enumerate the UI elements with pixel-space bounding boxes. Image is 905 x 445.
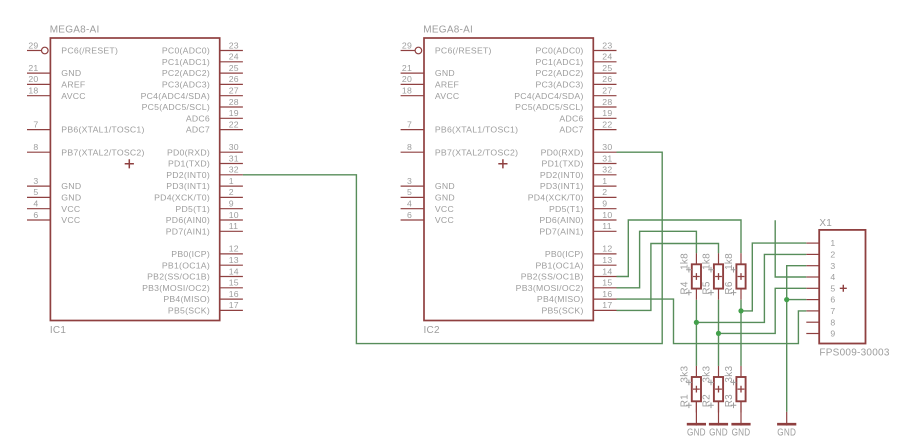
IC2 pin 16 PB4(MISO) (right) [537,289,617,304]
IC1 pin 21 GND (left) [27,63,81,78]
ground symbol GND on X1 pin3/6 net [777,412,796,439]
svg-text:PB0(ICP): PB0(ICP) [545,249,584,259]
R2 center cross [715,386,722,393]
svg-text:VCC: VCC [61,204,80,214]
svg-text:PD7(AIN1): PD7(AIN1) [539,226,583,236]
svg-text:27: 27 [602,86,612,96]
IC1 pin 26 PC3(ADC3) (right) [162,74,243,89]
IC1 pin 7 PB6(XTAL1/TOSC1) (left) [27,119,145,134]
wire net X1 pin 3 to GND rail [787,266,807,412]
svg-text:19: 19 [602,108,612,118]
svg-text:AREF: AREF [435,80,459,90]
svg-text:PC3(ADC3): PC3(ADC3) [162,80,210,90]
IC1 pin 4 VCC (left) [27,199,80,214]
svg-text:30: 30 [602,142,612,152]
svg-text:12: 12 [602,244,612,254]
IC2 pin 28 PC5(ADC5/SCL) (right) [515,97,616,112]
svg-text:PB7(XTAL2/TOSC2): PB7(XTAL2/TOSC2) [435,147,518,157]
svg-text:5: 5 [33,187,38,197]
junction dot R4/R1/X1.2 node [694,320,699,325]
IC1 pin 19 ADC6 (right) [186,108,243,123]
R1 center cross [693,386,700,393]
IC2 pin 30 PD0(RXD) (right) [541,142,617,157]
svg-text:23: 23 [602,40,612,50]
svg-text:14: 14 [602,266,612,276]
svg-text:PD3(INT1): PD3(INT1) [166,181,210,191]
ground symbol GND under R1 [687,401,706,438]
svg-text:30: 30 [229,142,239,152]
IC1 pin 1 PD3(INT1) (right) [166,176,243,191]
svg-text:ADC7: ADC7 [559,125,583,135]
IC2 pin 10 PD6(AIN0) (right) [539,210,616,225]
svg-text:AVCC: AVCC [435,91,460,101]
resistor R5 1k8 [701,253,723,300]
IC1 pin 23 PC0(ADC0) (right) [162,40,243,55]
IC1 pin 13 PB1(OC1A) (right) [162,255,243,270]
R3 bottom lead [740,401,742,412]
svg-text:PB5(SCK): PB5(SCK) [168,306,210,316]
IC1 pin 29 PC6(/RESET) (left) [27,40,118,55]
X1 pin 1 [806,238,835,248]
svg-text:20: 20 [28,74,38,84]
R2 top lead [718,366,720,377]
IC IC2 MEGA8-AI microcontroller [401,24,617,336]
IC1 pin 25 PC2(ADC2) (right) [162,63,243,78]
R2 origin crosses [708,380,714,386]
IC1 pin 18 AVCC (left) [27,86,86,101]
svg-text:VCC: VCC [435,204,454,214]
svg-text:23: 23 [229,40,239,50]
svg-text:PD6(AIN0): PD6(AIN0) [166,215,210,225]
IC2 pin 1 PD3(INT1) (right) [540,176,617,191]
svg-text:26: 26 [229,74,239,84]
svg-text:13: 13 [229,255,239,265]
svg-text:3: 3 [830,261,835,271]
svg-text:16: 16 [602,289,612,299]
IC1 pin 10 PD6(AIN0) (right) [166,210,243,225]
R6 top lead [740,253,742,264]
svg-text:15: 15 [602,278,612,288]
svg-text:10: 10 [602,210,612,220]
R5 top lead [718,253,720,264]
R6 bottom lead [740,289,742,300]
svg-text:GND: GND [732,427,751,438]
R4 bottom lead [695,289,697,300]
IC2 pin 14 PB2(SS/OC1B) (right) [521,266,617,281]
svg-text:31: 31 [602,153,612,163]
svg-text:PB4(MISO): PB4(MISO) [537,294,584,304]
IC2 pin 27 PC4(ADC4/SDA) (right) [514,86,616,101]
IC2 pin 9 PD5(T1) (right) [549,199,616,214]
IC1 pin 11 PD7(AIN1) (right) [166,221,243,236]
IC1 pin 16 PB4(MISO) (right) [163,289,243,304]
svg-text:4: 4 [33,199,38,209]
svg-text:PD5(T1): PD5(T1) [549,204,584,214]
svg-text:PD2(INT0): PD2(INT0) [540,170,584,180]
svg-text:8: 8 [830,317,835,327]
svg-text:5: 5 [407,187,412,197]
svg-text:PD5(T1): PD5(T1) [175,204,210,214]
R2 body [714,377,723,401]
R6 center cross [738,273,745,280]
IC2 pin 26 PC3(ADC3) (right) [535,74,616,89]
wire net R4 bottom junction to X1 pin 2 [696,254,806,322]
svg-text:PB5(SCK): PB5(SCK) [542,306,584,316]
ground symbol GND under R2 [709,401,728,438]
svg-text:PC0(ADC0): PC0(ADC0) [162,46,210,56]
IC2 pin 22 ADC7 (right) [559,119,616,134]
connector X1 FPS009-30003 [806,218,890,359]
IC2 origin cross [498,159,507,168]
svg-text:GND: GND [61,193,81,203]
IC1 pin 6 VCC (left) [27,210,80,225]
IC1 pin 8 PB7(XTAL2/TOSC2) (left) [27,142,145,157]
svg-text:4: 4 [830,272,835,282]
junction dot X1.3/X1.6/GND node [784,297,789,302]
R1 origin crosses [686,380,692,386]
svg-text:PB7(XTAL2/TOSC2): PB7(XTAL2/TOSC2) [61,147,144,157]
R5 body [714,264,723,288]
IC1 pin 15 PB3(MOSI/OC2) (right) [142,278,243,293]
IC1 pin 28 PC5(ADC5/SCL) (right) [142,97,243,112]
R3 body [736,377,745,401]
svg-text:PC6(/RESET): PC6(/RESET) [61,46,118,56]
svg-text:32: 32 [602,165,612,175]
svg-text:22: 22 [602,119,612,129]
svg-text:GND: GND [61,68,81,78]
svg-text:32: 32 [229,165,239,175]
svg-text:PC0(ADC0): PC0(ADC0) [535,46,583,56]
IC2 pin 4 VCC (left) [401,199,454,214]
svg-text:IC1: IC1 [50,325,67,336]
svg-text:ADC6: ADC6 [559,113,583,123]
IC2 pin 19 ADC6 (right) [559,108,616,123]
svg-text:PC4(ADC4/SDA): PC4(ADC4/SDA) [514,91,583,101]
svg-text:PC4(ADC4/SDA): PC4(ADC4/SDA) [141,91,210,101]
svg-text:ADC7: ADC7 [186,125,210,135]
svg-text:29: 29 [402,40,412,50]
IC2 pin 5 GND (left) [401,187,455,202]
svg-text:PD1(TXD): PD1(TXD) [542,159,584,169]
IC2 pin 32 PD2(INT0) (right) [540,165,617,180]
svg-text:13: 13 [602,255,612,265]
svg-text:8: 8 [33,142,38,152]
svg-text:VCC: VCC [61,215,80,225]
wire net X1 pin 4 stub (open end) [775,220,806,277]
X1 pin 7 [806,306,835,316]
svg-text:28: 28 [602,97,612,107]
IC2 pin 6 VCC (left) [401,210,454,225]
R6 origin crosses [731,267,737,273]
IC1 pin 3 GND (left) [27,176,81,191]
X1 pin 2 [806,250,835,260]
R6 body [736,264,745,288]
IC1 pin 24 PC1(ADC1) (right) [162,52,243,67]
IC2 pin 17 PB5(SCK) (right) [542,300,617,315]
svg-text:PC1(ADC1): PC1(ADC1) [535,57,583,67]
IC2 pin 23 PC0(ADC0) (right) [535,40,616,55]
wire net IC2 PB4(MISO) pin 16 to X1 pin 7 [617,299,807,344]
svg-text:17: 17 [229,300,239,310]
R1 body [692,377,701,401]
resistor R6 1k8 [724,253,746,300]
IC1 pin 22 ADC7 (right) [186,119,243,134]
R4 center cross [693,273,700,280]
IC2 pin 18 AVCC (left) [401,86,460,101]
svg-text:17: 17 [602,300,612,310]
wire net R6 bottom junction to X1 pin 1 [741,243,806,311]
svg-text:1: 1 [830,238,835,248]
R1 bottom lead [695,401,697,412]
IC2 pin 20 AREF (left) [401,74,459,89]
svg-text:GND: GND [435,181,455,191]
IC1 pin 32 PD2(INT0) (right) [166,165,243,180]
resistor R1 3k3 [679,366,701,413]
IC2 pin 15 PB3(MOSI/OC2) (right) [516,278,617,293]
svg-text:PC3(ADC3): PC3(ADC3) [535,80,583,90]
junction dot R6/R3/X1.1 node [738,308,743,313]
svg-text:PB6(XTAL1/TOSC1): PB6(XTAL1/TOSC1) [435,125,518,135]
R3 center cross [738,386,745,393]
IC2 pin 25 PC2(ADC2) (right) [535,63,616,78]
svg-text:21: 21 [402,63,412,73]
svg-text:PB1(OC1A): PB1(OC1A) [162,260,210,270]
X1 pin 3 [806,261,835,271]
R4 body [692,264,701,288]
svg-text:AVCC: AVCC [61,91,86,101]
wire net R5 bottom to R2 top (divider tap) [718,300,720,366]
svg-text:9: 9 [229,199,234,209]
IC1 pin 9 PD5(T1) (right) [175,199,242,214]
resistor R2 3k3 [701,366,723,413]
wire net IC2 PB2(SS/OC1B) pin 14 to R6 top [617,220,742,277]
R3 top lead [740,366,742,377]
svg-text:PC6(/RESET): PC6(/RESET) [435,46,492,56]
svg-text:2: 2 [229,187,234,197]
IC2 pin 24 PC1(ADC1) (right) [535,52,616,67]
svg-text:16: 16 [229,289,239,299]
R5 origin crosses [708,267,714,273]
IC2 pin 7 PB6(XTAL1/TOSC1) (left) [401,119,519,134]
R2 bottom lead [718,401,720,412]
svg-text:PD0(RXD): PD0(RXD) [167,147,210,157]
IC2 pin 2 PD4(XCK/T0) (right) [528,187,617,202]
svg-text:19: 19 [229,108,239,118]
IC2 body outline [424,38,593,321]
svg-text:14: 14 [229,266,239,276]
svg-text:GND: GND [61,181,81,191]
IC1 pin 17 PB5(SCK) (right) [168,300,243,315]
svg-text:8: 8 [407,142,412,152]
IC1 pin 12 PB0(ICP) (right) [171,244,243,259]
svg-text:X1: X1 [819,218,832,229]
svg-text:27: 27 [229,86,239,96]
svg-text:MEGA8-AI: MEGA8-AI [423,24,473,35]
svg-text:7: 7 [33,119,38,129]
R3 origin crosses [731,380,737,386]
svg-text:PB6(XTAL1/TOSC1): PB6(XTAL1/TOSC1) [61,125,144,135]
svg-text:24: 24 [602,52,612,62]
R5 center cross [715,273,722,280]
svg-text:PC5(ADC5/SCL): PC5(ADC5/SCL) [142,102,210,112]
resistor R4 1k8 [679,253,701,300]
junction dot R5/R2/X1.5 node [716,331,721,336]
svg-text:PD0(RXD): PD0(RXD) [541,147,584,157]
IC1 pin 2 PD4(XCK/T0) (right) [154,187,243,202]
wire net R4 bottom to R1 top (divider tap) [695,300,697,366]
IC1 pin 27 PC4(ADC4/SDA) (right) [141,86,243,101]
svg-text:PB0(ICP): PB0(ICP) [171,249,210,259]
svg-text:GND: GND [435,68,455,78]
svg-text:2: 2 [830,250,835,260]
svg-text:15: 15 [229,278,239,288]
wire net IC1 PD2(INT0) pin 32 to IC2 PD0(RXD) pin 30 [243,152,662,343]
svg-text:7: 7 [407,119,412,129]
svg-text:9: 9 [602,199,607,209]
resistor R3 3k3 [724,366,746,413]
IC2 pin 21 GND (left) [401,63,455,78]
svg-text:6: 6 [830,295,835,305]
svg-text:2: 2 [602,187,607,197]
IC2 pin 12 PB0(ICP) (right) [545,244,617,259]
svg-text:PC2(ADC2): PC2(ADC2) [162,68,210,78]
X1 pin 9 [806,329,835,339]
svg-text:PD4(XCK/T0): PD4(XCK/T0) [528,193,584,203]
IC1 body outline [50,38,219,321]
IC2 pin 31 PD1(TXD) (right) [542,153,617,168]
IC1 pin 31 PD1(TXD) (right) [168,153,243,168]
IC2 pin 3 GND (left) [401,176,455,191]
svg-text:28: 28 [229,97,239,107]
IC1 pin 5 GND (left) [27,187,81,202]
svg-text:PB3(MOSI/OC2): PB3(MOSI/OC2) [142,283,210,293]
svg-text:11: 11 [602,221,612,231]
svg-text:PB4(MISO): PB4(MISO) [163,294,210,304]
IC2 pin 29 PC6(/RESET) (left) [401,40,492,55]
X1 pin 8 [806,317,835,327]
svg-text:29: 29 [28,40,38,50]
svg-text:PD6(AIN0): PD6(AIN0) [539,215,583,225]
X1 origin cross [840,285,847,292]
ground symbol GND under R3 [731,401,750,438]
R4 origin crosses [686,267,692,273]
svg-text:22: 22 [229,119,239,129]
svg-text:PC2(ADC2): PC2(ADC2) [535,68,583,78]
IC2 pin 13 PB1(OC1A) (right) [535,255,616,270]
svg-text:25: 25 [602,63,612,73]
svg-text:PD4(XCK/T0): PD4(XCK/T0) [154,193,210,203]
svg-text:PC1(ADC1): PC1(ADC1) [162,57,210,67]
svg-text:9: 9 [830,329,835,339]
X1 pin 4 [806,272,835,282]
IC1 origin cross [125,159,134,168]
svg-text:5: 5 [830,283,835,293]
wire net R6 bottom to R3 top (divider tap) [740,300,742,366]
wire net R5 bottom junction to X1 pin 5 [719,288,807,333]
svg-text:1: 1 [229,176,234,186]
svg-text:11: 11 [229,221,239,231]
svg-text:VCC: VCC [435,215,454,225]
svg-text:6: 6 [407,210,412,220]
IC IC1 MEGA8-AI microcontroller [27,24,243,336]
IC1 pin 30 PD0(RXD) (right) [167,142,243,157]
svg-text:4: 4 [407,199,412,209]
svg-text:PC5(ADC5/SCL): PC5(ADC5/SCL) [515,102,583,112]
svg-text:10: 10 [229,210,239,220]
svg-text:18: 18 [28,86,38,96]
svg-text:PD1(TXD): PD1(TXD) [168,159,210,169]
svg-text:1: 1 [602,176,607,186]
svg-text:FPS009-30003: FPS009-30003 [819,348,889,359]
svg-text:PB2(SS/OC1B): PB2(SS/OC1B) [147,272,210,282]
svg-text:PD7(AIN1): PD7(AIN1) [166,226,210,236]
svg-text:3: 3 [407,176,412,186]
svg-text:PB2(SS/OC1B): PB2(SS/OC1B) [521,272,584,282]
svg-text:AREF: AREF [61,80,85,90]
svg-text:PD2(INT0): PD2(INT0) [166,170,210,180]
X1 pin 6 [806,295,835,305]
svg-text:PB1(OC1A): PB1(OC1A) [535,260,583,270]
svg-text:GND: GND [687,427,706,438]
svg-text:PB3(MOSI/OC2): PB3(MOSI/OC2) [516,283,584,293]
svg-text:7: 7 [830,306,835,316]
svg-text:12: 12 [229,244,239,254]
IC1 pin 20 AREF (left) [27,74,85,89]
IC1 pin 14 PB2(SS/OC1B) (right) [147,266,243,281]
svg-text:ADC6: ADC6 [186,113,210,123]
svg-text:24: 24 [229,52,239,62]
svg-text:26: 26 [602,74,612,84]
IC2 pin 8 PB7(XTAL2/TOSC2) (left) [401,142,519,157]
svg-text:21: 21 [28,63,38,73]
IC2 pin 11 PD7(AIN1) (right) [539,221,616,236]
svg-text:GND: GND [709,427,728,438]
svg-text:25: 25 [229,63,239,73]
svg-text:PD3(INT1): PD3(INT1) [540,181,584,191]
R4 top lead [695,253,697,264]
R5 bottom lead [718,289,720,300]
svg-text:GND: GND [435,193,455,203]
R1 top lead [695,366,697,377]
svg-text:20: 20 [402,74,412,84]
svg-text:31: 31 [229,153,239,163]
svg-text:GND: GND [777,427,796,438]
svg-text:18: 18 [402,86,412,96]
svg-text:IC2: IC2 [424,325,441,336]
svg-text:3: 3 [33,176,38,186]
wire net IC2 PB5(SCK) pin 17 to R5 top [617,244,719,311]
wire net X1 pin 6 to junction [787,299,807,301]
X1 body outline [819,230,865,344]
X1 pin 5 [806,283,835,293]
wire net IC2 PB3(MOSI/OC2) pin 15 to R4 top [617,231,697,287]
svg-text:MEGA8-AI: MEGA8-AI [50,24,100,35]
svg-text:6: 6 [33,210,38,220]
